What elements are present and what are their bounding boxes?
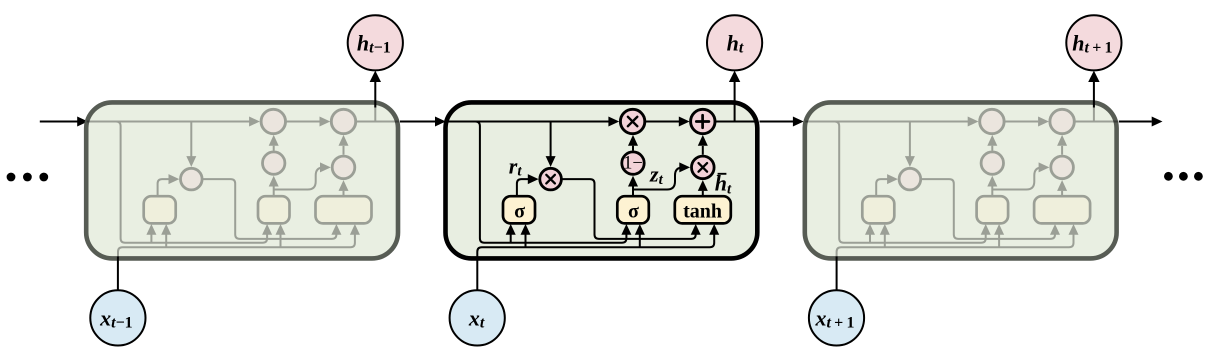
left ellipsis dots <box>7 173 49 182</box>
symbol: times in second multiply <box>699 163 708 172</box>
node: h_t circle <box>707 15 762 70</box>
right ellipsis dots <box>1164 172 1203 181</box>
wire: h_t-1 output arrow <box>374 81 376 107</box>
svg-text:σ: σ <box>514 201 525 223</box>
arrowhead at far right <box>1152 117 1163 127</box>
left GRU cell body <box>86 102 398 258</box>
symbol: times in top multiply <box>628 117 637 126</box>
wire: arrow from center cell to right cell <box>760 121 794 123</box>
arrowhead toward right cell <box>793 117 804 127</box>
wire: x_t input stem <box>476 257 478 291</box>
svg-text:1−: 1− <box>623 153 643 174</box>
wire: x_t-1 input stem <box>117 257 119 291</box>
node: x_t circle <box>450 290 505 345</box>
arrowhead into h_t-1 circle <box>370 71 381 82</box>
svg-text:tanh: tanh <box>683 201 722 223</box>
wire: h_t output arrow <box>734 81 736 104</box>
center GRU cell body <box>446 102 758 258</box>
node: x_t-1 circle <box>90 290 145 345</box>
svg-text:σ: σ <box>628 201 639 223</box>
overline of h-bar <box>718 173 727 175</box>
left cell internals (faded) <box>87 100 400 259</box>
arrowhead into h_t+1 circle <box>1088 71 1099 82</box>
wire: h_t+1 output arrow <box>1093 81 1095 107</box>
node: x_t+1 circle <box>809 290 864 345</box>
wire: arrow from left cell to center cell <box>400 121 435 123</box>
symbol: plus in plus node <box>696 115 709 128</box>
arrowhead into center cell <box>435 117 446 127</box>
wire: outgoing h arrow at far right <box>1119 121 1152 123</box>
center cell internals <box>446 100 759 259</box>
node: h_t-1 circle <box>348 15 403 70</box>
arrowhead into h_t circle <box>729 71 740 82</box>
right cell internals (faded) <box>805 100 1118 259</box>
symbol: times in reset multiply <box>546 175 555 184</box>
wire: x_t+1 input stem <box>836 257 838 291</box>
node: h_t+1 circle <box>1066 15 1121 70</box>
wire: incoming h arrow at far left <box>40 121 78 123</box>
right GRU cell body <box>805 102 1117 258</box>
arrowhead into left cell <box>77 117 88 127</box>
